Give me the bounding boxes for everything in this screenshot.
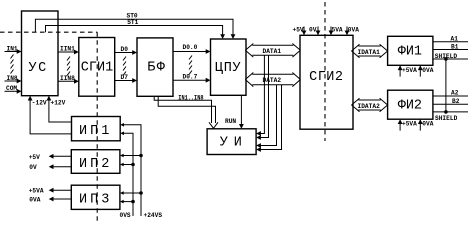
svg-text:ИП2: ИП2 — [79, 157, 112, 172]
wire -12V US to IP1 — [30, 97, 71, 134]
wire COM — [5, 90, 21, 92]
wire +5VA IP3 left — [50, 189, 71, 191]
svg-text:5VA: 5VA — [332, 27, 343, 34]
arrow into IP2 lower — [120, 163, 124, 167]
arrow -12V into US — [28, 96, 33, 101]
arrow ST1 into CPU — [220, 34, 225, 39]
arrow 0V into SGI2 — [316, 31, 321, 36]
block IP3 (ИП3) — [71, 185, 120, 209]
wire D0 SGI1 to BF — [115, 52, 136, 54]
svg-text:IN1..IN8: IN1..IN8 — [178, 95, 203, 102]
wire IN1..IN8 bus line2 BF to UI — [158, 96, 215, 123]
wire ST1 — [46, 26, 223, 38]
wire IIN8 US to SGI1 — [58, 80, 77, 82]
wire 0VA stub FI2 — [419, 120, 421, 130]
wire DATA1 branch b to UI — [258, 55, 269, 137]
arrow into IP3 lower — [120, 200, 124, 204]
block IP1 (ИП1) — [72, 117, 121, 141]
svg-text:+5V: +5V — [29, 154, 40, 161]
bus IDATA2 SGI2-FI2 — [352, 98, 388, 112]
break squiggle SGI1-BF — [123, 57, 126, 76]
wire RUN CPU to UI — [240, 95, 242, 127]
svg-text:A1: A1 — [451, 35, 459, 42]
svg-text:IN8: IN8 — [7, 75, 18, 82]
svg-text:ИП3: ИП3 — [79, 193, 112, 208]
arrow into IP1 lower — [120, 132, 124, 136]
arrow 0VA left — [49, 197, 54, 202]
bus DATA1 CPU-SGI2 — [245, 44, 300, 58]
wire SHIELD1 — [433, 58, 468, 60]
wire 0VA stub SGI2 top — [346, 27, 348, 35]
svg-text:IDATA1: IDATA1 — [358, 49, 381, 56]
wire ST0 — [35, 19, 233, 37]
wire +5VA stub FI2 — [399, 120, 401, 130]
svg-text:0VA: 0VA — [348, 27, 359, 34]
wire D0.0 BF to CPU — [173, 51, 209, 53]
wire 0VA IP3 left — [50, 198, 71, 200]
svg-text:0VA: 0VA — [29, 197, 40, 204]
arrow +5VA into SGI2 — [329, 31, 334, 36]
arrow IN1 into US — [17, 49, 22, 54]
arrow +5VA left — [49, 188, 54, 193]
block CPU (ЦПУ) — [211, 39, 247, 95]
arrow IN8 into US — [17, 79, 22, 84]
arrow 0V left — [49, 164, 54, 169]
wire A2 — [433, 95, 468, 97]
bus IDATA1 SGI2-FI1 — [352, 44, 388, 58]
arrow ST0 into CPU — [231, 34, 236, 39]
wire 0VA stub FI1 — [419, 67, 421, 77]
wire SHIELD2 — [433, 111, 468, 113]
wire B1 — [433, 49, 468, 51]
wire D0.7 BF to CPU — [173, 79, 209, 81]
svg-text:IIN1: IIN1 — [60, 46, 75, 53]
junction dot IP3 rail2 — [139, 191, 143, 195]
junction dot IP3 rail1 — [131, 200, 135, 204]
wire DATA1 branch a to UI — [258, 55, 265, 133]
wire +5V stub SGI2 top — [303, 27, 305, 35]
svg-text:IN1: IN1 — [7, 45, 18, 52]
module boundary dashed line horizontal — [0, 31, 97, 33]
svg-text:+5VA: +5VA — [402, 67, 417, 74]
wire +5VA stub FI1 — [399, 67, 401, 77]
svg-text:0V: 0V — [309, 27, 317, 34]
wire IP1 in upper from rail +24VS — [122, 125, 142, 216]
svg-text:B1: B1 — [451, 43, 459, 50]
svg-text:RUN: RUN — [225, 118, 236, 125]
block FI1 (ФИ1) — [388, 36, 433, 65]
svg-text:DATA1: DATA1 — [263, 48, 282, 55]
bus DATA2 CPU-SGI2 — [245, 73, 300, 87]
arrow 0VA into FI1 — [418, 65, 423, 70]
svg-text:+24VS: +24VS — [144, 212, 163, 219]
arrow +5V into SGI2 — [302, 31, 307, 36]
arrow branch d into UI — [256, 147, 261, 152]
arrow +5VA into FI2 — [398, 119, 403, 124]
wire IP2 in upper — [121, 155, 141, 157]
svg-text:B2: B2 — [452, 98, 460, 105]
wire IN1 — [5, 51, 21, 53]
svg-text:A2: A2 — [451, 90, 459, 97]
svg-text:COM: COM — [6, 85, 17, 92]
svg-text:УИ: УИ — [220, 136, 248, 151]
svg-text:IIN8: IIN8 — [60, 75, 75, 82]
svg-text:0V: 0V — [29, 164, 37, 171]
svg-text:СГИ1: СГИ1 — [81, 61, 113, 76]
arrow D7 into BF — [132, 78, 137, 83]
svg-text:DATA2: DATA2 — [263, 77, 282, 84]
wire +12V US to IP1 — [49, 97, 72, 122]
svg-text:ФИ1: ФИ1 — [398, 44, 422, 59]
arrow +5VA into FI1 — [398, 65, 403, 70]
break squiggle inputs left — [11, 55, 14, 74]
wire IP1 in lower from rail 0VS — [122, 133, 134, 216]
svg-text:0VA: 0VA — [422, 67, 433, 74]
svg-text:ST1: ST1 — [127, 19, 138, 26]
svg-text:+5VA: +5VA — [29, 188, 44, 195]
wire B2 — [433, 103, 468, 105]
svg-text:0VS: 0VS — [120, 212, 131, 219]
svg-text:D0: D0 — [121, 46, 129, 53]
arrow IN1..IN8 into UI open V — [209, 122, 218, 128]
wire shield link FI1-FI2 — [445, 59, 447, 112]
arrow D0.0 into CPU — [206, 49, 211, 54]
wire A1 — [433, 41, 468, 43]
svg-text:D7: D7 — [121, 74, 129, 81]
block UI (УИ) — [207, 129, 256, 155]
svg-text:+12V: +12V — [51, 99, 66, 106]
svg-text:IDATA2: IDATA2 — [358, 103, 381, 110]
block SGI1 (СГИ1) — [79, 38, 115, 97]
svg-text:D0.7: D0.7 — [183, 74, 198, 81]
arrow IIN1 into SGI1 — [74, 50, 79, 55]
wire IIN1 US to SGI1 — [58, 51, 77, 53]
svg-text:ИП1: ИП1 — [79, 124, 112, 139]
block SGI2 (СГИ2) — [300, 35, 353, 129]
arrow IIN8 into SGI1 — [74, 79, 79, 84]
wire 0V IP2 left — [50, 166, 71, 168]
arrow COM into US — [17, 89, 22, 94]
wire IN1..IN8 bus line1 BF to UI — [154, 96, 211, 123]
svg-text:БФ: БФ — [147, 61, 166, 76]
module boundary dashed line vertical left — [96, 32, 98, 223]
block FI2 (ФИ2) — [388, 90, 433, 119]
svg-text:0VA: 0VA — [422, 121, 433, 128]
arrow D0.7 into CPU — [206, 78, 211, 83]
arrow 0VA into FI2 — [418, 119, 423, 124]
svg-text:+5V: +5V — [293, 27, 304, 34]
svg-text:СГИ2: СГИ2 — [309, 70, 343, 85]
junction dot SHIELD1 — [444, 57, 448, 61]
arrow branch b into UI — [256, 135, 261, 140]
junction dot SHIELD2 — [444, 110, 448, 114]
svg-text:УС: УС — [28, 61, 47, 76]
arrow branch c into UI — [256, 143, 261, 148]
break squiggle BF-CPU — [189, 56, 192, 75]
arrow +5V left — [49, 154, 54, 159]
wire DATA2 branch a to UI — [258, 85, 277, 146]
arrow 0VA into SGI2 — [345, 31, 350, 36]
svg-text:-12V: -12V — [32, 99, 47, 106]
arrow into IP2 upper — [120, 154, 124, 158]
wire IN8 — [5, 80, 21, 82]
break squiggle US-SGI1 — [67, 57, 70, 76]
junction dot IP2 rail2 — [139, 154, 143, 158]
block IP2 (ИП2) — [71, 150, 120, 174]
block US (УС) — [22, 11, 59, 96]
arrow D0 into BF — [132, 50, 137, 55]
arrow RUN into UI — [239, 124, 244, 129]
arrow branch a into UI — [256, 131, 261, 136]
arrow into IP1 upper — [120, 123, 124, 127]
wire DATA2 branch b to UI — [258, 85, 282, 150]
wire 0V stub SGI2 top — [317, 27, 319, 35]
block BF (БФ) — [137, 38, 173, 96]
wire +5V IP2 left — [50, 155, 71, 157]
arrow into IP3 upper — [120, 191, 124, 195]
svg-text:ЦПУ: ЦПУ — [215, 61, 241, 76]
wire IP3 in lower — [121, 201, 133, 203]
module boundary dashed line vertical right — [324, 2, 326, 141]
arrow +12V into US — [47, 96, 52, 101]
svg-text:D0.0: D0.0 — [183, 44, 198, 51]
wire D7 SGI1 to BF — [115, 80, 136, 82]
wire IP2 in lower — [121, 164, 133, 166]
svg-text:ФИ2: ФИ2 — [398, 99, 422, 114]
svg-text:+5VA: +5VA — [402, 121, 417, 128]
junction dot IP2 rail1 — [131, 163, 135, 167]
wire +5VA stub SGI2 top — [330, 27, 332, 35]
wire IP3 in upper — [121, 192, 141, 194]
svg-text:SHIELD: SHIELD — [435, 115, 458, 122]
